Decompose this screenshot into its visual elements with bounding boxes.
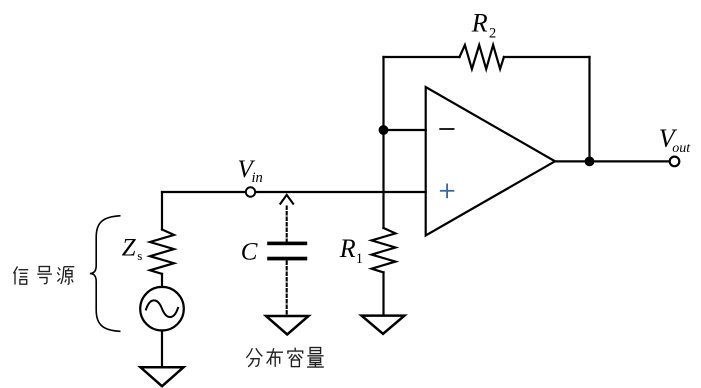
junction dot output	[585, 157, 595, 167]
capacitor C bottom plate	[267, 257, 307, 261]
wire inverting input	[384, 129, 426, 131]
svg-text:out: out	[672, 141, 691, 156]
label 信号源 (hand-drawn kanji)	[14, 267, 75, 285]
wire feedback top left segment	[384, 56, 460, 58]
label Vout	[659, 124, 692, 156]
量	[307, 348, 324, 368]
label R2	[471, 9, 496, 42]
capacitor C top plate	[267, 242, 307, 246]
wire source branch top lead	[161, 192, 163, 230]
svg-text:Z: Z	[122, 234, 137, 261]
号	[37, 267, 52, 284]
op-amp plus sign	[441, 184, 454, 197]
brace signal source	[90, 216, 120, 331]
wire output	[555, 160, 670, 162]
op-amp U1	[426, 87, 555, 236]
svg-text:2: 2	[489, 25, 496, 41]
svg-text:C: C	[241, 239, 258, 266]
ground below source	[141, 367, 184, 386]
布	[267, 348, 283, 367]
junction dot inverting input	[379, 125, 389, 135]
label 分布容量 (hand-drawn kanji)	[246, 348, 323, 368]
wire feedback right vertical	[588, 57, 590, 161]
容	[288, 348, 303, 367]
wire feedback left vertical	[382, 57, 384, 228]
svg-text:s: s	[137, 248, 142, 263]
wire Zs to source	[161, 274, 163, 287]
信	[14, 267, 29, 285]
svg-text:R: R	[339, 234, 356, 263]
wire dotted stray-capacitance arrow	[280, 195, 293, 241]
ac source Vs	[140, 287, 184, 331]
ground below R1	[362, 316, 405, 334]
wire main input horizontal Vin to op-amp +	[162, 191, 426, 193]
wire dotted below capacitor	[286, 262, 288, 316]
resistor R2	[460, 45, 504, 69]
ground below capacitor (stray)	[266, 316, 309, 335]
wire feedback top right segment	[504, 56, 590, 58]
node Vin terminal circle	[246, 187, 255, 196]
resistor Zs	[150, 230, 174, 274]
源	[57, 267, 74, 285]
label R1	[339, 234, 363, 267]
svg-text:1: 1	[356, 251, 363, 267]
分	[246, 348, 262, 367]
op-amp minus sign	[440, 128, 453, 130]
svg-text:in: in	[252, 170, 263, 186]
label Vin	[238, 156, 263, 186]
svg-text:R: R	[471, 9, 488, 38]
resistor R1	[372, 228, 396, 272]
wire source to ground	[161, 331, 163, 368]
label Zs	[122, 234, 143, 263]
node Vout terminal circle	[670, 157, 680, 167]
wire R1 to ground	[382, 272, 384, 315]
